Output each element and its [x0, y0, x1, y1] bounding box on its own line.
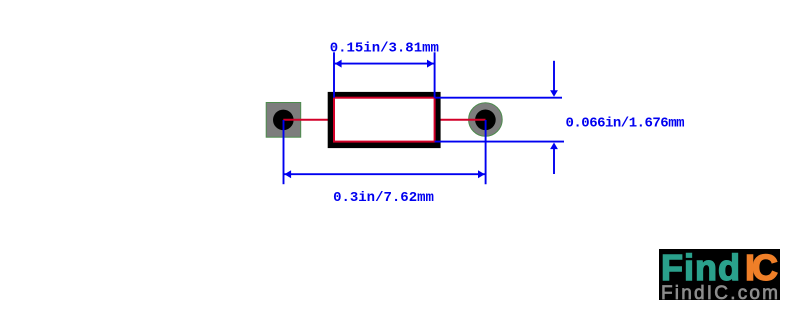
FindIC logo	[659, 247, 780, 304]
pad 2 (right round pad)	[469, 103, 503, 137]
resistor body silkscreen (red)	[334, 98, 435, 142]
dimension: 0.3in/7.62mm (bottom)	[284, 120, 486, 206]
dimension: 0.15in/3.81mm (top)	[330, 40, 439, 97]
wire: pad 1 to body (red)	[283, 119, 329, 121]
svg-text:IC: IC	[745, 247, 778, 288]
svg-text:0.3in/7.62mm: 0.3in/7.62mm	[333, 190, 434, 206]
resistor body outline (black)	[331, 95, 438, 145]
wire: body to pad 2 (red)	[440, 119, 486, 121]
pad 1 (left square pad)	[266, 103, 301, 138]
dimension: 0.066in/1.676mm (right)	[435, 61, 685, 174]
pad 1 drill hole	[273, 110, 294, 131]
svg-text:0.066in/1.676mm: 0.066in/1.676mm	[566, 115, 685, 131]
svg-text:0.15in/3.81mm: 0.15in/3.81mm	[330, 40, 439, 56]
pad 2 drill hole	[475, 110, 496, 131]
svg-text:Find: Find	[661, 247, 740, 288]
